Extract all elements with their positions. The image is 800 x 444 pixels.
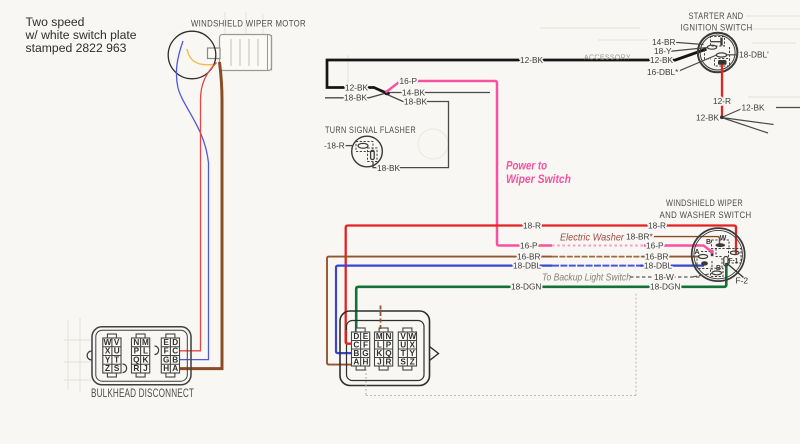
bulkhead terminal grid [161, 334, 179, 377]
svg-text:16-P: 16-P [520, 240, 538, 250]
wire 14-BR [671, 42, 704, 45]
svg-text:B: B [706, 239, 711, 246]
dashed box bottom slot [711, 268, 724, 276]
wire yellow (motor) [187, 49, 213, 65]
svg-text:12-BK: 12-BK [520, 55, 544, 65]
wire red motor to bulkhead C [180, 63, 217, 351]
wire 16-DBL* [677, 55, 717, 72]
svg-text:18-BK: 18-BK [404, 97, 428, 107]
junction blob [384, 90, 389, 95]
wire 18-BR dashed stub to engine connector M [380, 306, 382, 331]
dotted route to backup light switch [366, 292, 636, 396]
svg-text:16-DBL*: 16-DBL* [647, 67, 679, 77]
svg-text:WINDSHIELD WIPER MOTOR: WINDSHIELD WIPER MOTOR [191, 19, 306, 29]
wire 14-BK from junction [388, 92, 490, 94]
ignition terminal (battery, solid) [718, 60, 727, 65]
svg-text:18-DBL: 18-DBL [513, 261, 542, 271]
turn signal flasher [352, 136, 383, 167]
wire to F-2 [727, 263, 744, 278]
svg-text:16-P: 16-P [400, 76, 418, 86]
svg-text:W: W [720, 235, 727, 242]
engine connector terminal grid [398, 328, 416, 370]
terminal bar near A [711, 250, 714, 256]
svg-text:Wiper Switch: Wiper Switch [506, 174, 571, 186]
svg-text:18-DBL: 18-DBL [644, 261, 673, 271]
note: two speed annotation [25, 15, 137, 55]
svg-text:12-BK: 12-BK [345, 83, 369, 93]
svg-text:H: H [362, 357, 368, 366]
wire 18-DGN connector D to switch [356, 263, 726, 333]
wire 18-R to wiper switch F-1 and down to connector C [346, 226, 736, 344]
svg-text:18-R: 18-R [648, 220, 666, 230]
terminal W solid [716, 243, 726, 247]
svg-text:C: C [172, 347, 178, 356]
bulkhead terminal grid [132, 334, 150, 377]
svg-text:F: F [164, 347, 169, 356]
engine side connector body [340, 311, 439, 386]
wire 12-BK fan at bottom [722, 108, 800, 134]
wire 18-BR electric washer to W [652, 237, 720, 244]
svg-text:T: T [114, 355, 119, 364]
wire 16-P pink from junction to wiper switch [386, 83, 399, 93]
svg-text:12-R: 12-R [713, 96, 731, 106]
svg-text:H: H [163, 364, 169, 373]
svg-text:F-2: F-2 [736, 276, 749, 286]
wire 18-BK from junction to turn signal flasher [373, 94, 449, 168]
svg-text:18-DBL': 18-DBL' [739, 50, 769, 60]
wire 18-DBL connector B to switch [336, 266, 552, 354]
engine connector terminal grid [375, 328, 393, 370]
engine connector terminal grid [352, 328, 370, 370]
svg-text:G: G [163, 355, 169, 364]
bulkhead disconnect body [87, 327, 191, 385]
svg-text:WINDSHIELD WIPER: WINDSHIELD WIPER [666, 198, 743, 208]
svg-text:IGNITION SWITCH: IGNITION SWITCH [681, 23, 753, 33]
wiper switch internals [697, 240, 741, 275]
svg-text:18-BK: 18-BK [344, 93, 368, 103]
svg-text:16-P: 16-P [646, 240, 664, 250]
terminal slot at green end [724, 257, 728, 267]
svg-text:R: R [133, 364, 139, 373]
svg-text:12-BK: 12-BK [742, 103, 766, 113]
svg-text:To Backup Light Switch: To Backup Light Switch [542, 272, 631, 283]
pink blob end [710, 250, 714, 254]
svg-text:F-1: F-1 [729, 257, 739, 264]
wire 18-Y [668, 48, 708, 52]
svg-text:J: J [377, 357, 381, 366]
svg-text:AND WASHER SWITCH: AND WASHER SWITCH [660, 210, 752, 220]
note: Power to Wiper Switch [506, 160, 571, 186]
wiper motor connector tab [208, 48, 221, 59]
wire 12-R red from ignition [721, 65, 723, 118]
switch pin labels [695, 235, 739, 272]
wire 16-BR connector A to switch A [327, 257, 552, 365]
wire 18-DBL right [727, 54, 739, 56]
svg-text:TURN SIGNAL FLASHER: TURN SIGNAL FLASHER [325, 125, 416, 135]
svg-text:U: U [114, 347, 120, 356]
wire brown (thick) motor to bulkhead A [180, 62, 222, 369]
svg-text:A: A [172, 364, 178, 373]
svg-text:stamped 2822 963: stamped 2822 963 [26, 41, 127, 55]
svg-text:A: A [353, 357, 359, 366]
scan ghost artifacts (faint) [64, 12, 800, 392]
svg-text:L: L [143, 347, 148, 356]
wiper motor gear housing circle [168, 31, 216, 79]
svg-text:12-BK: 12-BK [650, 55, 674, 65]
svg-text:BULKHEAD DISCONNECT: BULKHEAD DISCONNECT [91, 386, 194, 400]
svg-text:M: M [142, 338, 149, 347]
svg-text:Electric Washer: Electric Washer [560, 232, 624, 243]
svg-text:18-W: 18-W [654, 272, 674, 282]
svg-text:18-R: 18-R [523, 220, 541, 230]
dotted route stub through connector H [365, 357, 367, 396]
svg-text:18-DGN: 18-DGN [511, 282, 541, 292]
wire red drop to engine connector C [346, 330, 352, 344]
svg-text:Z: Z [410, 357, 415, 366]
svg-text:A: A [695, 249, 700, 256]
svg-text:18-BK: 18-BK [377, 163, 401, 173]
svg-text:-18-R: -18-R [324, 141, 345, 151]
svg-text:N: N [133, 338, 139, 347]
svg-text:J: J [143, 364, 147, 373]
wire 18-R stub into flasher [342, 145, 352, 147]
wiper washer switch body [692, 228, 745, 281]
svg-text:Power to: Power to [506, 160, 547, 172]
svg-text:STARTER AND: STARTER AND [689, 11, 744, 21]
wire 18-W into switch [693, 274, 712, 277]
svg-text:D: D [172, 338, 178, 347]
wire 18-W dashed [630, 276, 700, 278]
wire 12-BK accessory feed (thick black) [327, 60, 674, 95]
ignition switch internals [705, 37, 730, 67]
svg-text:K: K [142, 355, 148, 364]
svg-text:18-DGN: 18-DGN [650, 282, 680, 292]
svg-text:12-BK: 12-BK [696, 112, 720, 122]
svg-text:ACCESSORY: ACCESSORY [584, 53, 631, 62]
bulkhead terminal grid [103, 334, 121, 377]
svg-text:R: R [385, 357, 391, 366]
svg-text:Z: Z [105, 364, 110, 373]
wiper motor body (cylinder) [220, 35, 272, 71]
svg-text:W: W [104, 338, 112, 347]
ignition switch body [698, 33, 738, 73]
wire 18-BK stub from left to junction [325, 94, 385, 98]
terminal left-lower solid [701, 261, 708, 265]
wire 18-DBL blue motor to bulkhead B [176, 41, 208, 360]
wire 12-BK diagonal into ignition switch [674, 49, 707, 61]
svg-text:B: B [172, 355, 178, 364]
